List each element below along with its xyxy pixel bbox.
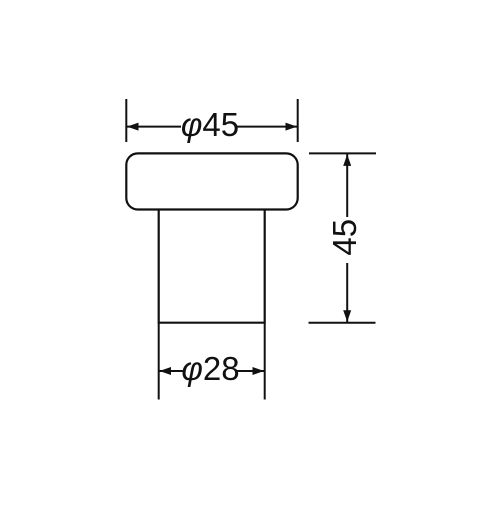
dimension phi28: right arrowhead bbox=[253, 367, 265, 375]
dimension 45 (height): dimension line upper segment bbox=[346, 154, 348, 217]
dimension phi28: dimension line left segment bbox=[160, 370, 185, 372]
svg-text:45: 45 bbox=[326, 219, 363, 256]
dimension 45 (height): top arrowhead bbox=[343, 154, 351, 166]
dimension phi45: left arrowhead bbox=[127, 123, 139, 131]
dimension phi45: dimension line right segment bbox=[237, 126, 298, 128]
svg-text:φ28: φ28 bbox=[181, 350, 239, 387]
dimension 45 (height): bottom extension line bbox=[309, 322, 376, 324]
dimension phi28: dimension line right segment bbox=[237, 370, 265, 372]
knob stem (cylinder body) bbox=[159, 210, 265, 323]
dimension 45 (height): dimension line lower segment bbox=[346, 263, 348, 322]
dimension phi45: right arrowhead bbox=[286, 123, 298, 131]
dimension 45 (height): top extension line bbox=[309, 152, 376, 154]
dimension phi45: right extension line bbox=[297, 99, 299, 142]
knob cap (rounded top) bbox=[126, 153, 297, 209]
svg-text:φ45: φ45 bbox=[181, 106, 239, 143]
dimension phi28: left arrowhead bbox=[160, 367, 172, 375]
dimension phi45: dimension line left segment bbox=[127, 126, 181, 128]
dimension phi28: left extension line bbox=[158, 323, 160, 400]
dimension phi45: left extension line bbox=[125, 99, 127, 142]
dimension 45 (height): bottom arrowhead bbox=[343, 310, 351, 322]
dimension phi28: right extension line bbox=[264, 323, 266, 400]
